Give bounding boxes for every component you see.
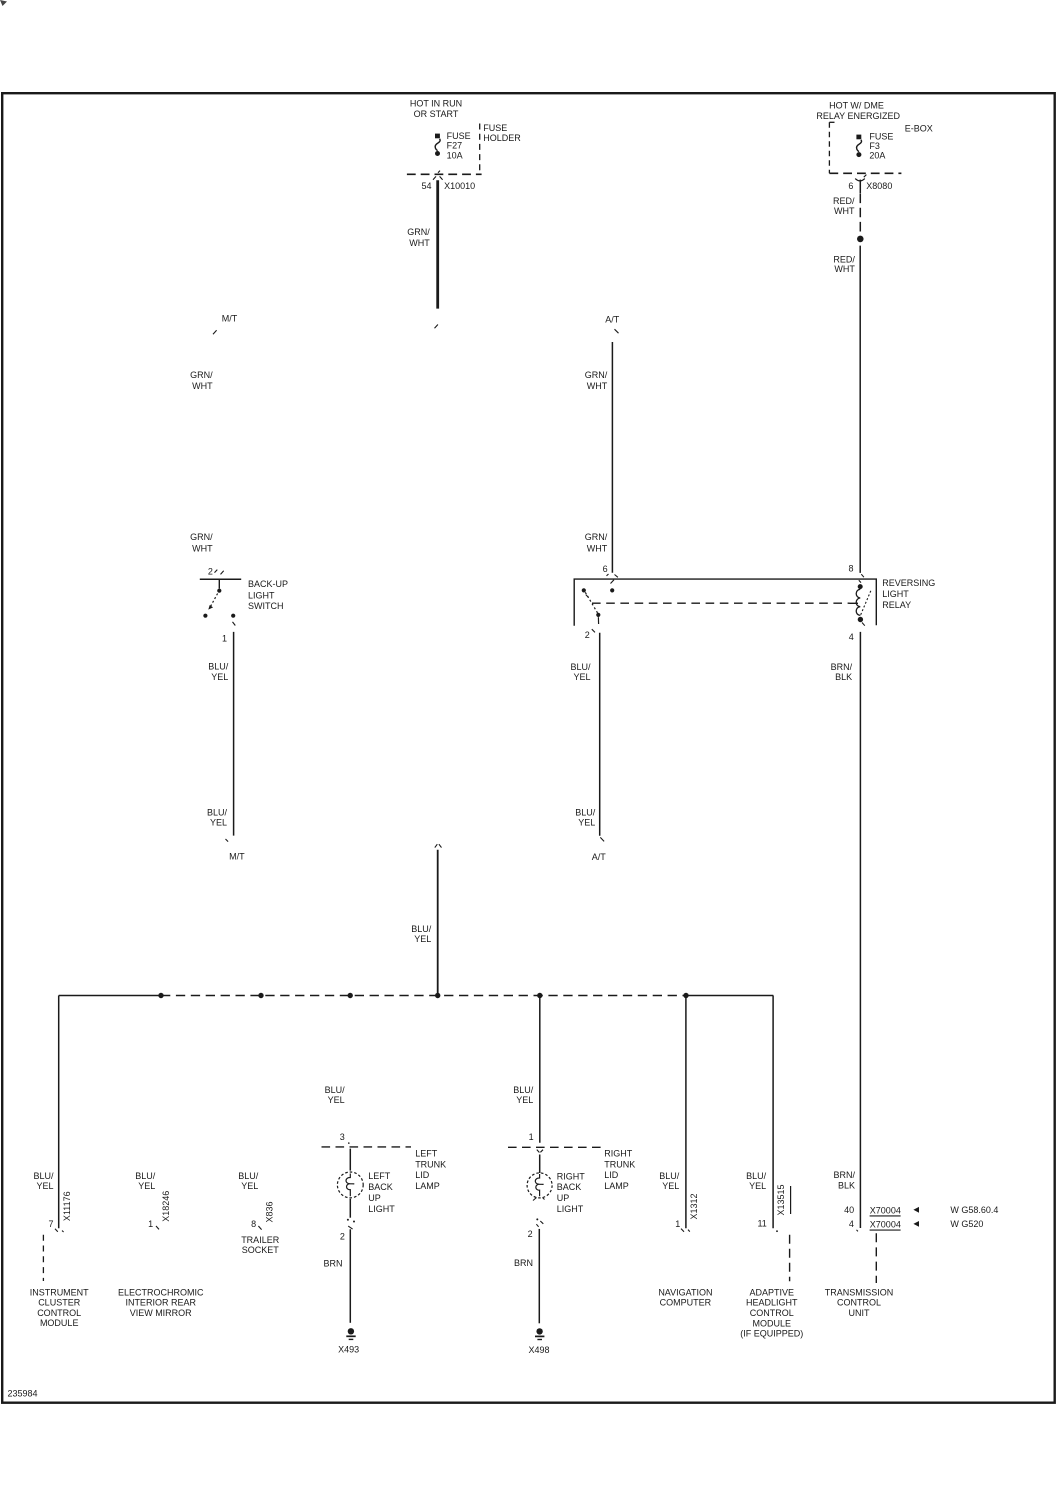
svg-text:6: 6	[603, 564, 608, 574]
svg-text:WHT: WHT	[834, 206, 855, 216]
svg-text:TRUNK: TRUNK	[415, 1159, 446, 1169]
svg-text:RIGHT: RIGHT	[604, 1148, 633, 1158]
svg-text:BLK: BLK	[835, 672, 852, 682]
svg-text:4: 4	[849, 1219, 854, 1229]
svg-text:MODULE: MODULE	[40, 1318, 79, 1328]
svg-text:FUSE: FUSE	[447, 131, 471, 141]
svg-text:W G520: W G520	[950, 1219, 983, 1229]
svg-text:F27: F27	[447, 141, 463, 151]
svg-text:TRUNK: TRUNK	[604, 1159, 635, 1169]
svg-text:X493: X493	[338, 1344, 359, 1354]
svg-text:LID: LID	[415, 1170, 430, 1180]
svg-text:W G58.60.4: W G58.60.4	[950, 1205, 998, 1215]
svg-text:BLU/: BLU/	[208, 662, 229, 672]
svg-text:VIEW MIRROR: VIEW MIRROR	[130, 1308, 192, 1318]
svg-text:YEL: YEL	[573, 672, 590, 682]
svg-text:RED/: RED/	[833, 196, 855, 206]
svg-text:BLU/: BLU/	[411, 924, 432, 934]
svg-text:2: 2	[208, 566, 213, 576]
svg-text:BLU/: BLU/	[575, 807, 596, 817]
svg-text:HOLDER: HOLDER	[483, 133, 521, 143]
svg-text:E-BOX: E-BOX	[905, 123, 933, 133]
svg-text:WHT: WHT	[834, 264, 855, 274]
svg-text:X836: X836	[265, 1201, 275, 1222]
svg-text:1: 1	[222, 633, 227, 643]
svg-text:CONTROL: CONTROL	[37, 1308, 81, 1318]
svg-text:BLU/: BLU/	[513, 1085, 534, 1095]
svg-text:YEL: YEL	[662, 1181, 679, 1191]
svg-text:FUSE: FUSE	[483, 123, 507, 133]
svg-text:UP: UP	[368, 1193, 381, 1203]
svg-text:X11176: X11176	[62, 1191, 72, 1221]
svg-text:GRN/: GRN/	[407, 227, 430, 237]
svg-text:BLU/: BLU/	[570, 662, 591, 672]
svg-text:YEL: YEL	[138, 1181, 155, 1191]
svg-text:BRN: BRN	[323, 1258, 342, 1268]
svg-text:10A: 10A	[447, 150, 463, 160]
svg-text:BACK: BACK	[557, 1182, 582, 1192]
svg-text:WHT: WHT	[192, 543, 213, 553]
svg-text:X498: X498	[528, 1345, 549, 1355]
svg-text:CONTROL: CONTROL	[837, 1298, 881, 1308]
svg-text:YEL: YEL	[578, 818, 595, 828]
svg-text:YEL: YEL	[211, 672, 228, 682]
svg-text:2: 2	[340, 1232, 345, 1242]
svg-text:X70004: X70004	[870, 1205, 901, 1215]
svg-text:TRANSMISSION: TRANSMISSION	[825, 1287, 894, 1297]
svg-text:BLU/: BLU/	[135, 1171, 156, 1181]
svg-text:BLK: BLK	[838, 1180, 855, 1190]
svg-text:RIGHT: RIGHT	[557, 1171, 586, 1181]
svg-text:8: 8	[251, 1219, 256, 1229]
svg-text:(IF EQUIPPED): (IF EQUIPPED)	[740, 1329, 803, 1339]
svg-text:LID: LID	[604, 1170, 619, 1180]
svg-text:CONTROL: CONTROL	[750, 1308, 794, 1318]
svg-text:3: 3	[340, 1132, 345, 1142]
svg-text:BRN: BRN	[514, 1258, 533, 1268]
svg-text:LIGHT: LIGHT	[368, 1204, 395, 1214]
svg-text:11: 11	[757, 1219, 766, 1229]
svg-text:UNIT: UNIT	[849, 1308, 870, 1318]
svg-text:LAMP: LAMP	[415, 1181, 440, 1191]
svg-text:54: 54	[421, 181, 431, 191]
svg-text:GRN/: GRN/	[585, 370, 608, 380]
svg-text:LIGHT: LIGHT	[557, 1204, 584, 1214]
svg-text:YEL: YEL	[210, 818, 227, 828]
svg-text:BLU/: BLU/	[325, 1085, 346, 1095]
svg-text:LIGHT: LIGHT	[882, 589, 909, 599]
svg-text:M/T: M/T	[222, 314, 238, 324]
svg-text:BACK: BACK	[368, 1182, 393, 1192]
svg-text:YEL: YEL	[241, 1181, 258, 1191]
svg-text:RED/: RED/	[833, 254, 855, 264]
svg-text:NAVIGATION: NAVIGATION	[658, 1287, 712, 1297]
svg-text:X8080: X8080	[866, 181, 892, 191]
svg-text:WHT: WHT	[587, 381, 608, 391]
svg-text:REVERSING: REVERSING	[882, 578, 935, 588]
svg-text:CLUSTER: CLUSTER	[38, 1298, 81, 1308]
svg-text:COMPUTER: COMPUTER	[660, 1298, 712, 1308]
svg-text:RELAY: RELAY	[882, 600, 911, 610]
svg-text:X70004: X70004	[870, 1220, 901, 1230]
svg-text:LEFT: LEFT	[415, 1148, 438, 1158]
svg-text:BRN/: BRN/	[833, 1170, 855, 1180]
svg-text:SWITCH: SWITCH	[248, 601, 284, 611]
svg-text:LEFT: LEFT	[368, 1171, 391, 1181]
svg-text:HEADLIGHT: HEADLIGHT	[746, 1298, 798, 1308]
svg-text:M/T: M/T	[229, 851, 245, 861]
svg-text:GRN/: GRN/	[585, 532, 608, 542]
svg-text:1: 1	[148, 1219, 153, 1229]
svg-text:6: 6	[848, 181, 853, 191]
svg-text:INTERIOR REAR: INTERIOR REAR	[125, 1298, 196, 1308]
svg-text:LIGHT: LIGHT	[248, 590, 275, 600]
svg-text:BLU/: BLU/	[33, 1171, 54, 1181]
svg-text:4: 4	[849, 632, 854, 642]
svg-text:X10010: X10010	[444, 181, 475, 191]
svg-text:235984: 235984	[8, 1389, 38, 1399]
svg-text:BLU/: BLU/	[207, 807, 228, 817]
svg-text:MODULE: MODULE	[753, 1318, 792, 1328]
svg-text:1: 1	[675, 1219, 680, 1229]
svg-text:1: 1	[529, 1132, 534, 1142]
svg-text:BLU/: BLU/	[659, 1171, 680, 1181]
svg-text:TRAILER: TRAILER	[241, 1235, 280, 1245]
svg-text:2: 2	[585, 630, 590, 640]
svg-text:YEL: YEL	[36, 1181, 53, 1191]
svg-text:A/T: A/T	[605, 315, 620, 325]
svg-text:OR START: OR START	[414, 109, 459, 119]
svg-text:YEL: YEL	[414, 934, 431, 944]
svg-text:HOT W/ DME: HOT W/ DME	[829, 101, 884, 111]
svg-text:A/T: A/T	[592, 852, 607, 862]
svg-text:SOCKET: SOCKET	[242, 1245, 280, 1255]
svg-text:X13515: X13515	[776, 1184, 786, 1215]
svg-text:X18246: X18246	[161, 1191, 171, 1222]
svg-text:ELECTROCHROMIC: ELECTROCHROMIC	[118, 1287, 204, 1297]
svg-text:HOT IN RUN: HOT IN RUN	[410, 99, 462, 109]
svg-text:BRN/: BRN/	[831, 662, 853, 672]
svg-text:BACK-UP: BACK-UP	[248, 579, 288, 589]
svg-text:BLU/: BLU/	[238, 1171, 259, 1181]
svg-text:GRN/: GRN/	[190, 532, 213, 542]
svg-text:2: 2	[528, 1229, 533, 1239]
svg-text:INSTRUMENT: INSTRUMENT	[30, 1287, 89, 1297]
svg-text:LAMP: LAMP	[604, 1181, 629, 1191]
svg-text:YEL: YEL	[516, 1095, 533, 1105]
svg-text:ADAPTIVE: ADAPTIVE	[750, 1287, 795, 1297]
svg-text:X1312: X1312	[689, 1193, 699, 1219]
svg-text:YEL: YEL	[749, 1181, 766, 1191]
svg-text:GRN/: GRN/	[190, 370, 213, 380]
svg-text:8: 8	[848, 564, 853, 574]
svg-text:7: 7	[48, 1219, 53, 1229]
svg-text:WHT: WHT	[192, 381, 213, 391]
svg-text:RELAY ENERGIZED: RELAY ENERGIZED	[816, 111, 900, 121]
svg-text:BLU/: BLU/	[746, 1171, 767, 1181]
svg-text:YEL: YEL	[328, 1095, 345, 1105]
svg-text:UP: UP	[557, 1193, 570, 1203]
svg-text:20A: 20A	[869, 151, 885, 161]
svg-text:40: 40	[844, 1205, 854, 1215]
svg-text:WHT: WHT	[409, 238, 430, 248]
svg-text:FUSE: FUSE	[869, 131, 893, 141]
svg-text:WHT: WHT	[587, 543, 608, 553]
svg-text:F3: F3	[869, 141, 880, 151]
